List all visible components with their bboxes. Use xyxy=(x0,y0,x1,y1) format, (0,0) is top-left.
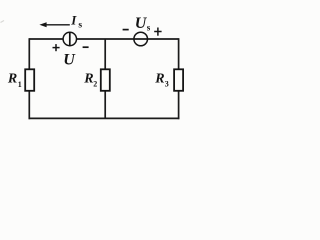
label Us xyxy=(135,15,151,32)
svg-text:I: I xyxy=(70,12,77,27)
wire middle lower xyxy=(104,91,106,119)
polarity + of U xyxy=(53,44,60,51)
svg-text:s: s xyxy=(78,20,82,30)
svg-text:R: R xyxy=(83,72,93,87)
voltage source Us (circle, wire passes through) xyxy=(134,32,148,46)
wire left upper xyxy=(28,38,30,69)
polarity + of Us xyxy=(154,28,161,36)
label R3 xyxy=(154,72,169,89)
wire left lower xyxy=(28,91,30,119)
svg-text:1: 1 xyxy=(18,80,22,89)
polarity - of Us xyxy=(123,29,129,31)
resistor R1 xyxy=(25,69,34,91)
resistor R2 xyxy=(101,69,110,91)
wire right lower xyxy=(178,91,180,119)
wire middle upper xyxy=(104,39,106,69)
resistor R3 xyxy=(174,69,183,91)
label R1 xyxy=(7,72,22,89)
svg-text:R: R xyxy=(7,72,17,87)
svg-text:R: R xyxy=(154,72,164,87)
svg-text:2: 2 xyxy=(93,79,97,88)
wire top-right segment (passes through Us source) xyxy=(76,38,178,40)
wire bottom xyxy=(29,117,180,119)
label Is xyxy=(70,12,82,30)
current source Is (circle with vertical bar) xyxy=(63,32,76,45)
label R2 xyxy=(83,72,97,89)
svg-text:3: 3 xyxy=(165,80,169,89)
svg-text:s: s xyxy=(147,23,151,33)
polarity - of U xyxy=(83,46,89,48)
wire top-left segment xyxy=(29,38,63,40)
wire right upper xyxy=(178,38,180,69)
label U (voltage across current source) xyxy=(63,51,76,68)
current arrow Is xyxy=(39,22,69,27)
svg-text:U: U xyxy=(63,51,76,68)
